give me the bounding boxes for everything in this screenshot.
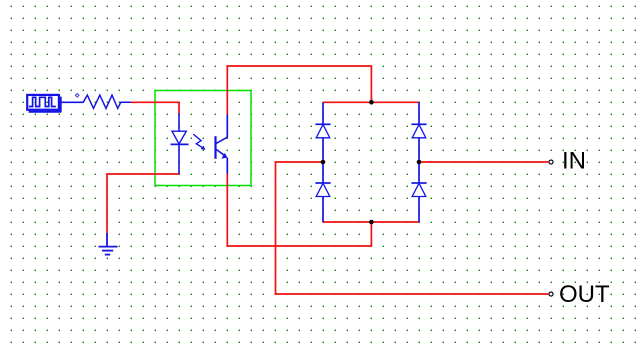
wire collector to bridge top	[227, 66, 371, 114]
LED D5	[171, 114, 189, 174]
optocoupler box U1	[155, 91, 251, 186]
wire bridge top rail	[323, 101, 419, 103]
junction bridge bottom	[369, 220, 374, 225]
junction bridge top	[369, 100, 374, 105]
wire bridge left node to OUT	[276, 162, 549, 294]
junction bridge right	[417, 160, 422, 165]
diode D1 (bridge upper-left)	[315, 102, 330, 183]
svg-text:IN: IN	[562, 148, 586, 175]
diode D2 (bridge lower-left)	[315, 183, 330, 222]
junction bridge left	[321, 160, 326, 165]
ground	[99, 233, 118, 255]
resistor R1	[83, 95, 131, 108]
phototransistor Q1	[216, 114, 228, 174]
wire emitter to bridge bottom	[227, 174, 371, 246]
diode D4 (bridge lower-right)	[411, 183, 426, 222]
diode D3 (bridge upper-right)	[411, 102, 426, 183]
terminal OUT	[549, 281, 610, 308]
wire bridge bottom rail	[323, 221, 419, 223]
svg-text:OUT: OUT	[559, 281, 610, 308]
wire resistor to LED anode	[131, 102, 179, 114]
node marker diamond	[75, 94, 79, 98]
wire bridge right node to IN	[419, 161, 548, 163]
light coupling arrow	[193, 134, 205, 150]
wire V1 output (blue)	[62, 101, 84, 103]
terminal IN	[549, 148, 586, 175]
pulse source V1	[27, 95, 61, 112]
wire LED cathode to ground	[107, 174, 179, 234]
